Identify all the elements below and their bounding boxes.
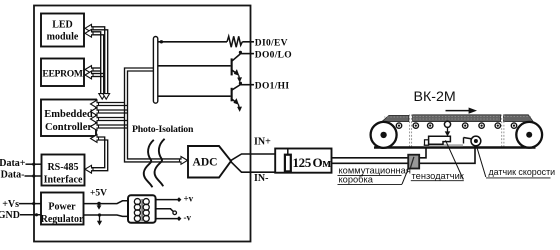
load application point circle [444, 121, 450, 127]
svg-text:-v: -v [184, 213, 192, 223]
svg-text:коробка: коробка [339, 175, 374, 185]
dashed section separator left [410, 115, 412, 148]
idler rollers [396, 123, 516, 128]
arrowhead into controller (RS-485 wire) [91, 135, 99, 143]
svg-text:+v: +v [184, 193, 194, 203]
op-amp style ADC block [188, 146, 231, 178]
arrowhead into controller (mid1) [91, 108, 99, 116]
hollow wire controller to photo-isolation bus bar [97, 68, 182, 162]
hollow stub wire controller (mid1) [97, 110, 128, 113]
wire Data- [25, 175, 42, 177]
EEPROM U2 [41, 59, 84, 87]
transformer T1 DC-DC [128, 195, 156, 223]
wire base of Q1 [158, 65, 231, 67]
cable wire upper 125Ohm to load cell [332, 147, 427, 158]
arrow tap GND [99, 215, 101, 222]
svg-text:GND: GND [0, 210, 20, 221]
arrowhead into EEPROM (upper) [85, 66, 93, 74]
node GND on border [35, 213, 38, 216]
wire ADC to IN- [231, 161, 276, 172]
svg-text:тензодатчик: тензодатчик [412, 171, 465, 181]
hollow bus wire controller to LED module (two strands) [91, 27, 108, 96]
wire -v output [156, 218, 177, 220]
svg-text:датчик скорости: датчик скорости [489, 167, 556, 177]
node GND tap [98, 213, 101, 216]
svg-text:Regulator: Regulator [41, 214, 84, 225]
wire base of Q2 [158, 95, 231, 97]
svg-text:Ом: Ом [313, 155, 332, 170]
pulley right [516, 122, 542, 148]
svg-text:EEPROM: EEPROM [42, 69, 83, 80]
svg-text:module: module [47, 32, 79, 43]
hollow stub wire controller (mid2) [97, 125, 128, 128]
pulley left [371, 122, 397, 148]
svg-text:IN-: IN- [254, 173, 268, 184]
svg-text:RS-485: RS-485 [47, 162, 78, 173]
arrowhead into LED module (upper) [85, 24, 93, 32]
svg-text:+5V: +5V [90, 189, 107, 199]
svg-text:Photo-Isolation: Photo-Isolation [132, 124, 194, 135]
Embedded Controller U3 [41, 100, 96, 137]
belt segment right [504, 115, 534, 122]
isolation squiggle right [155, 139, 165, 187]
wire ADC to IN+ [231, 154, 276, 161]
resistor R1 DI0 [227, 36, 242, 47]
transistor Q1 [231, 54, 242, 83]
belt segment middle [413, 115, 501, 122]
arrowhead into controller (ADC wire) [91, 115, 99, 123]
node +5V [97, 202, 101, 206]
Power Regulator U5 [41, 193, 84, 226]
svg-text:Data+: Data+ [0, 158, 26, 169]
label tenzodatchik [411, 171, 465, 181]
node Data- on border [32, 174, 35, 177]
svg-text:Controller: Controller [45, 122, 92, 133]
svg-text:LED: LED [52, 20, 73, 31]
arrow load onto platform [447, 128, 449, 133]
terminal circle center tap [173, 211, 177, 215]
arrow tap +5V [98, 204, 100, 206]
svg-text:DI0/EV: DI0/EV [255, 38, 288, 48]
svg-text:Interface: Interface [44, 175, 83, 186]
belt texture lines [384, 117, 531, 119]
arrowhead into controller (bus wire) [91, 100, 99, 108]
arrowhead into ADC [180, 157, 188, 165]
LED module U1 [41, 14, 84, 47]
node DO0 [239, 51, 242, 54]
svg-text:DO0/LO: DO0/LO [255, 50, 292, 60]
wire Data+ [26, 163, 42, 165]
svg-text:ADC: ADC [193, 157, 218, 169]
transistor Q2 [231, 85, 242, 112]
junction box [408, 155, 419, 169]
node Data+ on border [32, 163, 35, 166]
hollow wire controller to RS-485 [92, 137, 108, 171]
wire +Vs [19, 203, 41, 205]
diamond terminal -v [177, 216, 182, 221]
wire center tap [156, 209, 174, 212]
hollow branch wires into EEPROM [91, 68, 105, 77]
svg-text:Data-: Data- [1, 170, 25, 181]
wire +v output [156, 199, 177, 201]
arrowhead into RS-485 [85, 165, 93, 173]
RS-485 Interface U4 [42, 155, 85, 186]
svg-text:Embedded: Embedded [44, 109, 93, 120]
wire power return [84, 215, 129, 216]
wire DO1 collector line [240, 84, 254, 86]
svg-text:IN+: IN+ [254, 137, 271, 148]
arrow belt direction [446, 110, 471, 112]
hollow wire controller to ADC [97, 118, 128, 121]
node +Vs on border [32, 202, 35, 205]
svg-text:+Vs: +Vs [2, 199, 19, 210]
callout line speed sensor label [476, 145, 486, 177]
label datchik skorosti [486, 167, 555, 178]
weigh frame strip [423, 144, 463, 146]
load cell platform [425, 136, 451, 145]
isolation bus bar [153, 37, 157, 104]
callout line junction box label [402, 168, 408, 184]
callout line load cell label [446, 140, 464, 179]
isolation squiggle left [144, 140, 154, 188]
cable wire lower 125Ohm to speed sensor [332, 146, 476, 163]
shunt box 125 Ohm [275, 149, 331, 173]
arrowheads into controller top edge [99, 94, 106, 100]
arrowhead into LED module (lower) [85, 29, 93, 37]
svg-text:DO1/HI: DO1/HI [255, 81, 290, 91]
svg-text:Power: Power [48, 202, 76, 213]
svg-text:ВК-2М: ВК-2М [414, 89, 456, 105]
label kommutatsionnaya korobka [338, 165, 411, 184]
wire DI0 to border [242, 41, 254, 43]
module outer box [34, 6, 251, 242]
wire DI0 line [158, 41, 227, 43]
wire GND [20, 214, 41, 216]
node on DI0 line [160, 40, 163, 43]
speed sensor wheel [464, 136, 481, 146]
dashed section separator right [502, 115, 504, 148]
arrowhead into EEPROM (lower) [85, 71, 93, 79]
belt segment left [382, 115, 409, 121]
wire power +5V [84, 201, 129, 204]
wire DO0 collector line [240, 53, 254, 55]
node DO1 [239, 82, 242, 85]
arrowhead into controller (mid2) [91, 123, 99, 131]
svg-text:125: 125 [293, 155, 312, 170]
belt bottom run [374, 146, 536, 148]
diamond terminal +v [177, 197, 182, 202]
